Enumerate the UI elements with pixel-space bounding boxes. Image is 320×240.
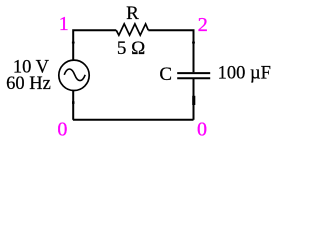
svg-text:2: 2: [198, 14, 208, 36]
svg-text:R: R: [126, 3, 139, 24]
svg-text:5 Ω: 5 Ω: [117, 38, 145, 59]
svg-text:60 Hz: 60 Hz: [6, 74, 51, 94]
svg-text:0: 0: [57, 119, 67, 141]
svg-text:1: 1: [59, 13, 69, 35]
svg-text:100 µF: 100 µF: [218, 64, 271, 84]
svg-text:C: C: [159, 64, 172, 85]
svg-text:0: 0: [197, 119, 207, 141]
